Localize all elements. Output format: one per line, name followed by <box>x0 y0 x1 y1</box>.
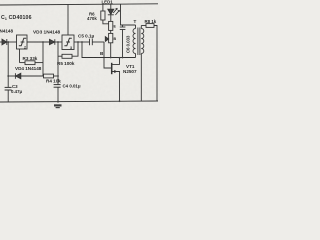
node emitter bottom junction <box>119 100 121 102</box>
wire C5 to base <box>104 42 112 68</box>
wire top supply rail <box>0 4 158 5</box>
resistor R7 <box>109 21 113 33</box>
wire to VD4 <box>8 75 15 77</box>
node R4 tee <box>57 75 59 77</box>
node collector tee <box>119 57 121 59</box>
LED LED1 <box>108 4 120 21</box>
resistor R6 470k <box>101 4 109 23</box>
node gate2 output tee <box>42 41 44 43</box>
node collector-wire tee <box>81 41 83 43</box>
wire gate3 output <box>74 41 89 43</box>
wire gate2 output <box>27 41 50 43</box>
capacitor C5 <box>90 39 105 45</box>
op-amp U1 Schmitt inverter 2 <box>17 35 28 50</box>
resistor R8 1k <box>141 24 157 101</box>
wire bottom ground rail <box>0 101 158 102</box>
node C6 bottom tee <box>122 57 124 59</box>
transistor VT1 <box>112 58 120 101</box>
diode VD4 1N4148 <box>15 73 43 79</box>
transformer T primary winding <box>133 25 136 58</box>
label C1 CD40106 <box>1 15 32 21</box>
wire R5 right vertical <box>72 42 78 56</box>
wire VD4/R4 branch vertical <box>42 42 44 76</box>
wire VDD drop to gate3 <box>67 4 69 35</box>
wire vertical C3 branch <box>7 42 9 87</box>
transformer T core <box>138 28 140 56</box>
transformer T secondary winding <box>141 26 144 102</box>
wire supply to tank top <box>121 4 136 25</box>
node LED column tee <box>110 57 112 59</box>
wire R3 to gate2 <box>19 49 21 63</box>
wire left input lead <box>0 41 2 43</box>
capacitor C4 <box>54 85 61 102</box>
wire vertical R5/C4 branch <box>57 42 59 84</box>
op-amp U1 Schmitt inverter 3 <box>62 35 74 50</box>
node bottom rail junction <box>57 101 59 103</box>
node R5 right tee <box>77 41 79 43</box>
node C3 branch tee <box>7 75 9 77</box>
capacitor C3 <box>5 87 12 102</box>
paper texture <box>0 0 160 110</box>
resistor R5 100k <box>58 54 72 58</box>
diode VD3 1N4148 <box>50 39 63 45</box>
ground <box>54 104 62 108</box>
wire output to tank rail <box>82 42 136 58</box>
diode VD5 <box>105 33 112 57</box>
node R5 left tee <box>57 41 59 43</box>
capacitor C6 <box>120 25 126 58</box>
resistor R4 10k <box>44 74 59 78</box>
diode VD2 1N4148 <box>2 39 17 45</box>
node gate2 input junction <box>7 41 9 43</box>
resistor R3 33k <box>20 61 44 65</box>
